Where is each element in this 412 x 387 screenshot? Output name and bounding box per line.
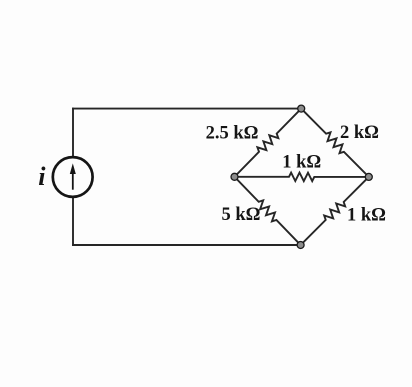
svg-text:5 kΩ: 5 kΩ: [222, 205, 261, 225]
resistor R1 2.5 kOhm: [235, 109, 302, 177]
resistor R3 1 kOhm middle: [235, 173, 369, 182]
wire bottom horizontal: [73, 244, 301, 246]
resistor R2 2 kOhm: [301, 109, 369, 177]
node bottom: [297, 242, 304, 249]
wire left vertical lower: [72, 198, 74, 246]
current source arrow: [70, 163, 76, 189]
wire left vertical upper: [72, 109, 74, 157]
node right: [365, 173, 372, 180]
current source I1 circle: [53, 157, 93, 197]
resistor R5 1 kOhm bottom right: [301, 177, 369, 245]
resistor R4 5 kOhm: [235, 177, 301, 245]
svg-text:1 kΩ: 1 kΩ: [282, 153, 321, 173]
svg-text:2 kΩ: 2 kΩ: [340, 123, 379, 143]
svg-text:2.5 kΩ: 2.5 kΩ: [206, 123, 259, 143]
node left: [231, 173, 238, 180]
svg-text:i: i: [38, 162, 46, 191]
node top: [298, 105, 305, 112]
wire top horizontal: [73, 108, 301, 110]
svg-text:1 kΩ: 1 kΩ: [347, 205, 386, 225]
